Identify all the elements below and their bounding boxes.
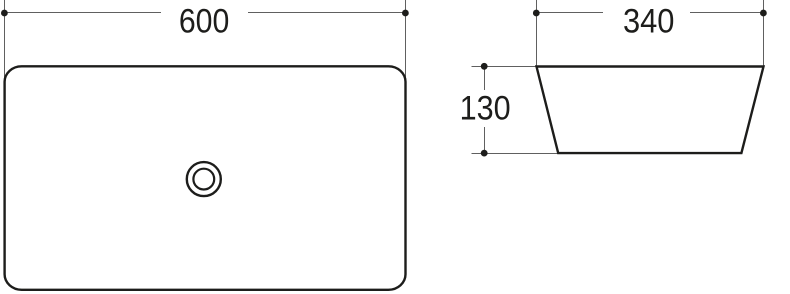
dimension line 340 right segment	[690, 12, 763, 14]
extension line left of 340 dimension	[536, 0, 538, 66]
dimension line 130 bottom segment	[484, 127, 486, 153]
dimension dot 130 bottom	[481, 150, 488, 157]
dimension line 600 right segment	[248, 12, 405, 14]
extension line right of 340 dimension	[763, 0, 765, 66]
extension line left of 600 dimension	[4, 0, 6, 78]
dimension line 130 top segment	[484, 66, 486, 90]
basin side view trapezoid	[537, 67, 764, 154]
drain outer circle	[187, 162, 221, 196]
svg-text:600: 600	[179, 3, 230, 41]
basin top view outline	[5, 66, 406, 289]
dimension line 600 left segment	[4, 12, 161, 14]
svg-text:130: 130	[460, 90, 511, 128]
dimension dot 600 left	[1, 10, 8, 17]
extension line right of 600 dimension	[405, 0, 407, 78]
dimension line 340 left segment	[536, 12, 603, 14]
dimension dot 600 right	[402, 10, 409, 17]
extension line top of 130 dimension	[472, 66, 538, 68]
svg-text:340: 340	[623, 3, 675, 41]
extension line bottom of 130 dimension	[472, 153, 559, 155]
dimension dot 340 right	[760, 10, 767, 17]
dimension dot 340 left	[533, 10, 540, 17]
drain inner circle	[193, 169, 214, 190]
dimension dot 130 top	[481, 63, 488, 70]
